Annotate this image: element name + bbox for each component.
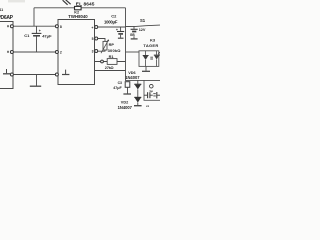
svg-text:TAGER: TAGER <box>143 43 158 48</box>
node terminal 1 left module <box>10 25 13 28</box>
svg-text:R1: R1 <box>109 55 114 59</box>
svg-text:47μF: 47μF <box>42 34 52 39</box>
svg-text:+: + <box>39 29 41 33</box>
ground under relay <box>142 66 150 71</box>
capacitor in output box <box>144 92 160 98</box>
page background <box>0 0 160 110</box>
light ray strokes <box>63 0 71 5</box>
svg-text:5: 5 <box>92 37 94 41</box>
svg-text:300kΩ: 300kΩ <box>108 48 122 53</box>
svg-text:27kΩ: 27kΩ <box>105 66 114 70</box>
wire +V rail from pin <box>98 26 126 28</box>
wire lamp top line left <box>34 7 74 9</box>
resistor R1 27k <box>95 55 126 70</box>
wire mid rail <box>13 51 55 53</box>
wire bottom net <box>125 79 160 81</box>
potentiometer RP 300k <box>98 39 121 54</box>
diode VD6 <box>134 80 141 97</box>
node terminal 2 left module <box>10 51 13 54</box>
pin circle left 3 <box>55 73 58 76</box>
wire pin4 to vertical <box>95 70 126 72</box>
pin circle right plus <box>95 26 98 29</box>
pin circle left 1 <box>55 25 58 28</box>
svg-text:S1: S1 <box>140 18 146 23</box>
relay LED right <box>154 51 161 67</box>
IC module K2 TWH8040 box <box>58 20 95 85</box>
svg-text:C1: C1 <box>24 33 30 38</box>
wire riser to lamp line <box>33 8 35 26</box>
svg-text:3: 3 <box>92 50 94 54</box>
ground mid bottom <box>30 75 41 87</box>
svg-text:C3: C3 <box>118 81 122 85</box>
left module box outline <box>0 22 13 89</box>
wire lamp top line right <box>81 7 125 9</box>
output box bottom right <box>144 80 160 100</box>
ground glyph inside K2 <box>62 70 69 75</box>
left module terminal label b <box>7 51 9 53</box>
switch S1 <box>126 18 161 27</box>
node terminal 3 left module <box>10 73 13 76</box>
svg-text:+: + <box>91 26 93 30</box>
svg-text:8: 8 <box>60 25 62 29</box>
svg-text:TWH8040: TWH8040 <box>68 14 88 19</box>
small circle in output box <box>150 84 154 88</box>
svg-text:K3: K3 <box>150 37 156 42</box>
battery GB 12V <box>130 26 146 39</box>
svg-text:RP: RP <box>109 43 115 47</box>
pin circle left 2 <box>55 51 58 54</box>
wire bottom rail <box>13 74 55 76</box>
left module terminal label a <box>7 25 9 27</box>
lamp EL body <box>75 6 82 9</box>
pin circle right 5 <box>95 37 98 40</box>
svg-text:GB: GB <box>130 33 135 37</box>
svg-text:1N4007: 1N4007 <box>118 105 133 110</box>
svg-text:1N4007: 1N4007 <box>125 75 140 80</box>
relay K3 box <box>139 51 159 67</box>
svg-text:cz: cz <box>146 104 150 108</box>
svg-text:47μF: 47μF <box>113 86 122 90</box>
svg-text:2: 2 <box>60 51 62 55</box>
stray print smudge top edge <box>8 0 25 2</box>
svg-text:11: 11 <box>0 8 3 12</box>
wire relay branch <box>126 51 140 53</box>
pin circle right 3 <box>95 50 98 53</box>
capacitor C3 47uF <box>113 81 131 94</box>
diode VD2 <box>134 97 142 105</box>
wire main right vertical <box>125 8 127 80</box>
svg-text:12V: 12V <box>139 28 146 32</box>
relay diode left <box>143 51 149 67</box>
svg-text:1000μF: 1000μF <box>104 19 118 24</box>
svg-text:EL 8645: EL 8645 <box>76 2 95 8</box>
capacitor C2 1000uF <box>104 14 124 39</box>
capacitor C1 47uF <box>24 26 52 52</box>
svg-text:C2: C2 <box>111 14 117 19</box>
wire top rail <box>13 25 55 27</box>
equals mark <box>150 57 153 59</box>
svg-text:PD6AP: PD6AP <box>0 15 14 21</box>
ground inside left module <box>3 69 10 74</box>
